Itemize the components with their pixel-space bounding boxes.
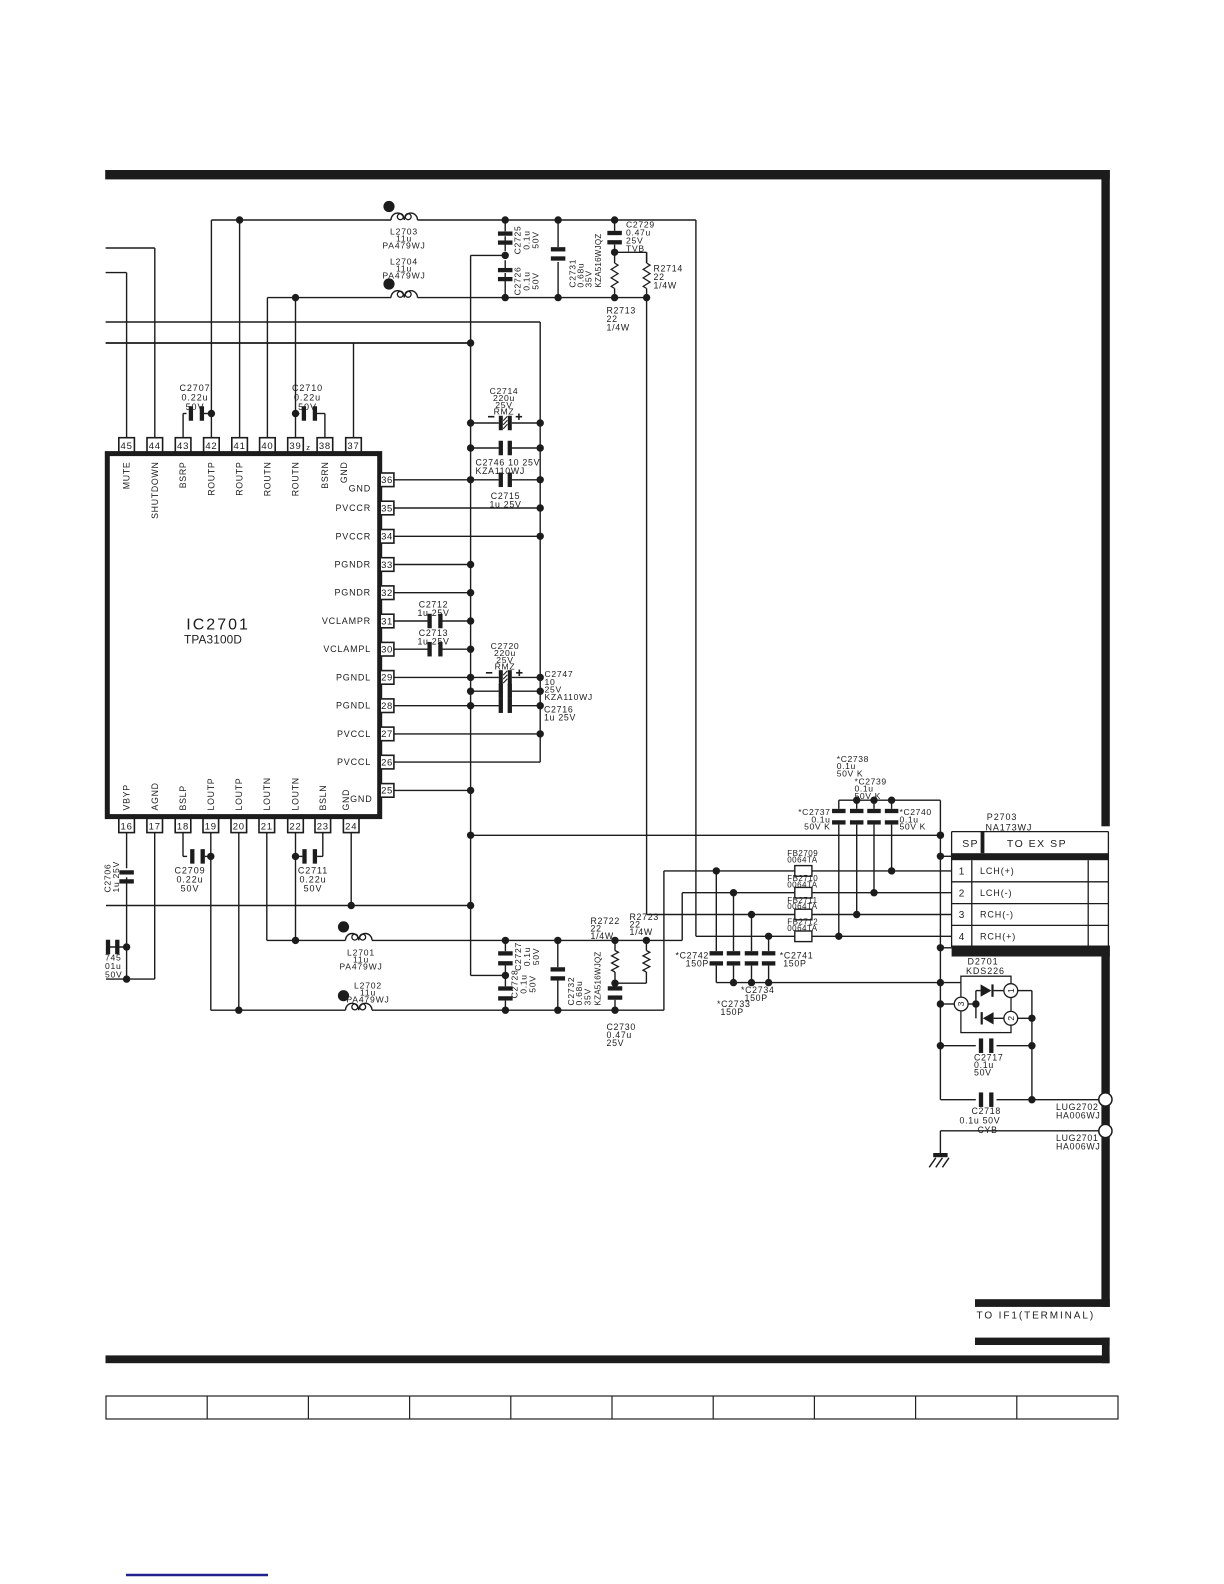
- svg-text:1u 25V: 1u 25V: [544, 713, 576, 723]
- svg-text:GND: GND: [350, 794, 372, 804]
- svg-text:32: 32: [381, 588, 393, 599]
- svg-text:ROUTP: ROUTP: [235, 462, 245, 496]
- svg-text:TO EX SP: TO EX SP: [1007, 838, 1067, 850]
- svg-text:50V: 50V: [186, 402, 205, 412]
- svg-text:19: 19: [205, 822, 217, 833]
- svg-text:LCH(+): LCH(+): [980, 866, 1015, 876]
- svg-text:0.22u: 0.22u: [294, 393, 321, 403]
- svg-text:SP: SP: [962, 838, 978, 850]
- svg-text:50V: 50V: [528, 975, 538, 992]
- svg-text:23: 23: [317, 822, 329, 833]
- svg-text:30: 30: [381, 645, 393, 656]
- svg-text:35V: 35V: [583, 988, 593, 1005]
- svg-text:50V: 50V: [531, 272, 541, 289]
- svg-text:0064TA: 0064TA: [787, 902, 818, 911]
- svg-text:17: 17: [149, 822, 161, 833]
- svg-text:33: 33: [381, 560, 393, 571]
- svg-text:TVB: TVB: [626, 244, 645, 254]
- svg-text:TPA3100D: TPA3100D: [184, 633, 242, 647]
- svg-text:GND: GND: [349, 483, 371, 493]
- svg-text:50V: 50V: [181, 884, 200, 894]
- svg-text:21: 21: [261, 822, 273, 833]
- svg-text:KZA110WJ: KZA110WJ: [545, 692, 593, 702]
- svg-text:0.22u: 0.22u: [181, 393, 208, 403]
- svg-text:BSRP: BSRP: [178, 462, 188, 489]
- svg-text:2: 2: [959, 888, 965, 899]
- svg-text:1/4W: 1/4W: [607, 323, 630, 333]
- svg-text:SHUTDOWN: SHUTDOWN: [150, 462, 160, 519]
- svg-text:PGNDL: PGNDL: [336, 672, 371, 682]
- svg-text:HA006WJ: HA006WJ: [1056, 1110, 1101, 1120]
- svg-text:HA006WJ: HA006WJ: [1056, 1141, 1101, 1151]
- svg-text:VCLAMPL: VCLAMPL: [323, 644, 371, 654]
- svg-text:39: 39: [289, 441, 301, 452]
- svg-text:3: 3: [956, 1001, 966, 1006]
- svg-text:LOUTN: LOUTN: [262, 777, 272, 810]
- svg-text:PA479WJ: PA479WJ: [382, 241, 425, 251]
- svg-text:PA479WJ: PA479WJ: [346, 995, 389, 1005]
- svg-text:PGNDR: PGNDR: [334, 588, 371, 598]
- svg-text:41: 41: [234, 441, 246, 452]
- svg-text:KZA516WJQZ: KZA516WJQZ: [594, 951, 603, 1005]
- svg-text:22: 22: [289, 822, 301, 833]
- svg-text:25: 25: [381, 786, 393, 797]
- svg-text:P2703: P2703: [987, 812, 1018, 822]
- svg-text:LOUTN: LOUTN: [291, 777, 301, 810]
- svg-text:28: 28: [381, 701, 393, 712]
- svg-text:50V: 50V: [531, 231, 541, 248]
- svg-text:GND: GND: [339, 462, 349, 484]
- svg-text:1u 25V: 1u 25V: [489, 500, 521, 510]
- svg-text:0064TA: 0064TA: [787, 924, 818, 933]
- svg-text:2: 2: [1006, 1016, 1016, 1021]
- svg-text:MUTE: MUTE: [122, 462, 132, 490]
- svg-text:50V K: 50V K: [855, 791, 881, 801]
- svg-text:z: z: [306, 443, 310, 452]
- svg-text:35: 35: [381, 503, 393, 514]
- svg-text:43: 43: [177, 441, 189, 452]
- svg-text:PGNDR: PGNDR: [334, 560, 371, 570]
- svg-text:C2707: C2707: [179, 383, 210, 393]
- svg-text:ROUTN: ROUTN: [291, 462, 301, 497]
- svg-text:PVCCR: PVCCR: [335, 531, 371, 541]
- svg-text:0.1u 50V: 0.1u 50V: [960, 1116, 1001, 1126]
- svg-text:18: 18: [177, 822, 189, 833]
- svg-text:1/4W: 1/4W: [591, 931, 614, 941]
- svg-text:20: 20: [233, 822, 245, 833]
- svg-text:PVCCL: PVCCL: [337, 729, 371, 739]
- svg-text:4: 4: [959, 932, 965, 943]
- svg-text:1: 1: [959, 867, 965, 878]
- svg-text:1u 25V: 1u 25V: [111, 861, 121, 892]
- svg-text:BSLP: BSLP: [178, 785, 188, 810]
- svg-text:TO IF1(TERMINAL): TO IF1(TERMINAL): [977, 1311, 1096, 1322]
- svg-text:1/4W: 1/4W: [630, 927, 653, 937]
- svg-text:50V: 50V: [105, 970, 122, 980]
- svg-text:LOUTP: LOUTP: [234, 778, 244, 811]
- svg-text:LCH(-): LCH(-): [980, 888, 1012, 898]
- svg-text:BSRN: BSRN: [320, 462, 330, 489]
- svg-text:C2710: C2710: [292, 383, 323, 393]
- svg-text:16: 16: [121, 822, 133, 833]
- svg-text:150P: 150P: [783, 959, 806, 969]
- svg-text:VBYP: VBYP: [122, 784, 132, 810]
- svg-text:25V: 25V: [607, 1038, 625, 1048]
- svg-text:PA479WJ: PA479WJ: [382, 270, 425, 280]
- svg-text:50V: 50V: [298, 402, 317, 412]
- svg-text:KDS226: KDS226: [966, 966, 1005, 976]
- svg-text:40: 40: [261, 441, 273, 452]
- svg-text:RCH(+): RCH(+): [980, 932, 1016, 942]
- svg-text:50V: 50V: [974, 1068, 992, 1078]
- svg-text:35V: 35V: [584, 270, 594, 287]
- svg-text:45: 45: [121, 441, 133, 452]
- svg-text:38: 38: [319, 441, 331, 452]
- svg-text:3: 3: [959, 910, 965, 921]
- svg-text:50V: 50V: [304, 884, 323, 894]
- svg-text:37: 37: [347, 441, 359, 452]
- svg-text:PA479WJ: PA479WJ: [339, 962, 382, 972]
- svg-text:KZA110WJ: KZA110WJ: [476, 466, 525, 476]
- svg-text:1: 1: [1006, 988, 1016, 993]
- svg-text:1/4W: 1/4W: [654, 281, 677, 291]
- svg-text:0064TA: 0064TA: [787, 880, 818, 889]
- svg-text:RMZ: RMZ: [494, 407, 515, 417]
- svg-text:RMZ: RMZ: [495, 661, 516, 671]
- svg-text:50V: 50V: [531, 948, 541, 965]
- svg-text:24: 24: [345, 822, 357, 833]
- svg-text:LOUTP: LOUTP: [206, 778, 216, 811]
- svg-text:1u 25V: 1u 25V: [417, 608, 449, 618]
- svg-text:VCLAMPR: VCLAMPR: [322, 616, 371, 626]
- svg-text:NA173WJ: NA173WJ: [986, 822, 1033, 832]
- svg-text:150P: 150P: [721, 1007, 744, 1017]
- svg-text:1u 25V: 1u 25V: [417, 636, 449, 646]
- svg-text:PVCCR: PVCCR: [335, 503, 371, 513]
- svg-text:26: 26: [381, 757, 393, 768]
- svg-text:ROUTP: ROUTP: [207, 462, 217, 496]
- svg-text:36: 36: [381, 475, 393, 486]
- svg-text:34: 34: [381, 532, 393, 543]
- svg-text:0064TA: 0064TA: [787, 855, 818, 864]
- svg-text:ROUTN: ROUTN: [263, 462, 273, 497]
- svg-text:44: 44: [149, 441, 161, 452]
- svg-text:BSLN: BSLN: [318, 785, 328, 811]
- svg-text:AGND: AGND: [150, 782, 160, 810]
- svg-text:KZA516WJQZ: KZA516WJQZ: [594, 234, 603, 288]
- svg-text:D2701: D2701: [968, 957, 999, 967]
- svg-text:RCH(-): RCH(-): [980, 910, 1014, 920]
- svg-text:PGNDL: PGNDL: [336, 701, 371, 711]
- svg-text:C2718: C2718: [972, 1106, 1001, 1116]
- svg-text:50V K: 50V K: [900, 822, 926, 832]
- svg-text:50V K: 50V K: [804, 822, 830, 832]
- svg-text:IC2701: IC2701: [186, 617, 250, 634]
- svg-text:150P: 150P: [686, 959, 709, 969]
- svg-text:31: 31: [381, 616, 393, 627]
- svg-text:42: 42: [205, 441, 217, 452]
- svg-text:29: 29: [381, 673, 393, 684]
- svg-text:PVCCL: PVCCL: [337, 757, 371, 767]
- svg-text:CYB: CYB: [978, 1125, 998, 1135]
- svg-text:27: 27: [381, 729, 393, 740]
